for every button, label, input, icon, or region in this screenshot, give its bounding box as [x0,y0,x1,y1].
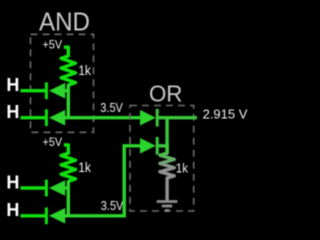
wire D3 anode to node [65,186,71,189]
wire OR node vertical [165,118,168,154]
OR gate box [130,106,194,212]
wire OR output [159,116,197,119]
diode D1 (gate 1, input 1) [46,82,65,99]
diode D3 (gate 2, input 3) [46,180,65,197]
wire input 2 [21,116,46,119]
resistor R2 1k (gate 2 pull-up) [61,145,75,181]
svg-text:3.5V: 3.5V [101,199,124,213]
svg-text:AND: AND [39,7,90,37]
wire gate1 common vertical [67,84,70,118]
svg-text:H: H [6,172,19,192]
resistor R3 1k (OR pull-down) [160,146,174,201]
svg-text:2.915 V: 2.915 V [203,107,248,122]
svg-text:1k: 1k [176,161,189,176]
svg-text:+5V: +5V [43,135,63,149]
diode D2 (gate 1, input 2) [46,109,65,126]
diode D5 (OR, input 1) [140,109,157,127]
svg-text:H: H [6,75,19,95]
wire D6 to node [159,144,169,147]
wire gate2 output to OR diode D6 (corner) [65,146,142,216]
svg-text:H: H [6,102,19,122]
diode D4 (gate 2, input 4) [46,207,65,224]
svg-text:+5V: +5V [43,37,63,51]
wire input 4 [21,214,46,217]
AND gate box [31,34,94,132]
svg-text:H: H [6,200,19,220]
ground [157,202,178,211]
resistor R1 1k (gate 1 pull-up) [61,47,75,85]
wire gate1 output to OR diode D5 [65,116,142,119]
wire input 1 [21,89,46,92]
diode D6 (OR, input 2) [140,137,157,155]
svg-text:OR: OR [149,81,183,107]
wire gate2 common vertical [67,181,70,216]
svg-text:3.5V: 3.5V [100,101,123,115]
svg-text:1k: 1k [78,159,92,175]
svg-text:1k: 1k [78,62,92,78]
wire D1 anode to node [65,89,71,92]
wire input 3 [21,186,46,189]
